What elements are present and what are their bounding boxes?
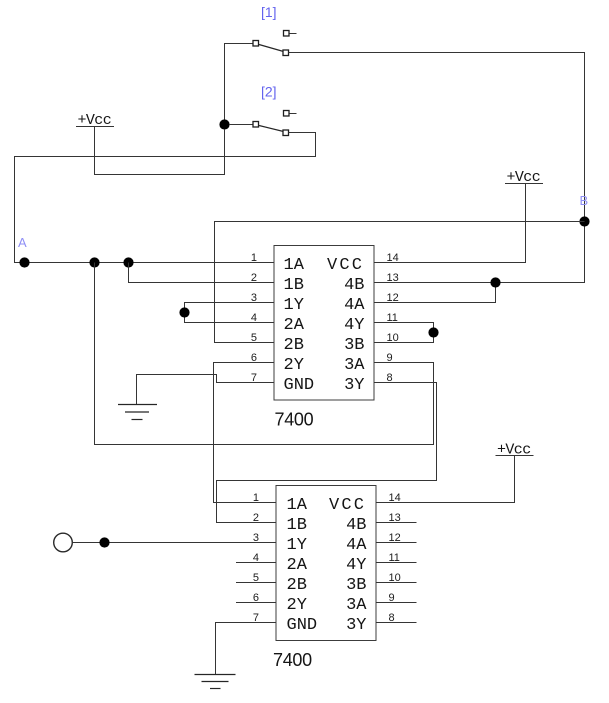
svg-text:2A: 2A [284, 316, 305, 335]
stub lower pin 12 [376, 542, 417, 544]
svg-text:1A: 1A [287, 496, 308, 515]
wire +Vcc V1 to switch junction [95, 127, 225, 175]
svg-text:3Y: 3Y [346, 616, 366, 635]
wire pin 12 up to pin 13 [374, 283, 496, 303]
svg-text:3: 3 [253, 532, 259, 544]
wire pin 2 branch [129, 263, 275, 283]
IC U2 pin numbers left [253, 492, 259, 624]
junction node A feedback tap [89, 257, 99, 267]
svg-text:4Y: 4Y [344, 316, 364, 335]
stub lower pin 9 [376, 602, 417, 604]
wire pin 11 to pin 10 [374, 323, 434, 343]
svg-text:2: 2 [253, 512, 259, 524]
wire pin 9 feedback to node A [95, 263, 434, 445]
svg-text:2Y: 2Y [287, 596, 307, 615]
stub lower pin 10 [376, 582, 417, 584]
svg-text:3B: 3B [346, 576, 366, 595]
switch S1 label [1] [261, 4, 277, 20]
wire pin 14 to +Vcc V2 [374, 184, 526, 263]
wire switch S1 input (from junction up and right to pole) [225, 44, 254, 125]
wire lower pin 14 to +Vcc V3 [376, 456, 515, 503]
svg-text:1: 1 [253, 492, 259, 504]
svg-text:2Y: 2Y [284, 356, 304, 375]
svg-text:9: 9 [387, 352, 393, 364]
wire switch S2 input [229, 124, 253, 126]
svg-text:4B: 4B [346, 516, 366, 535]
wire top rail (pin 5 to node B) [215, 222, 585, 343]
node B label [580, 193, 589, 208]
svg-text:1Y: 1Y [284, 296, 304, 315]
junction switch poles feed [219, 119, 229, 129]
switch S1 unused contact [284, 31, 297, 37]
wire lower pin 7 to ground [216, 623, 277, 675]
junction node B [579, 216, 589, 226]
stub lower pin 6 [236, 602, 276, 604]
IC U2 label 7400 [273, 650, 312, 670]
svg-text:B: B [580, 193, 589, 208]
junction pin13/pin12 [490, 277, 500, 287]
svg-text:GND: GND [284, 376, 315, 395]
svg-text:2A: 2A [287, 556, 308, 575]
svg-text:3: 3 [251, 292, 257, 304]
svg-text:2: 2 [251, 272, 257, 284]
switch S2 pole contact [253, 122, 259, 128]
svg-text:5: 5 [251, 332, 257, 344]
svg-text:3A: 3A [344, 356, 365, 375]
svg-text:1: 1 [251, 252, 257, 264]
stub lower pin 5 [236, 582, 276, 584]
svg-text:4A: 4A [344, 296, 365, 315]
svg-text:1B: 1B [287, 516, 307, 535]
ground GND2 [195, 675, 236, 689]
svg-text:4A: 4A [346, 536, 367, 555]
stub lower pin 8 [376, 622, 417, 624]
wire pin 3 to pin 4 [185, 303, 275, 323]
op IC U1 body [274, 246, 374, 401]
wire terminal to lower pin 3 [73, 542, 277, 544]
svg-text:3A: 3A [346, 596, 367, 615]
wire pin 6 to lower pin 1 [214, 363, 277, 503]
power +Vcc V1 [76, 112, 114, 129]
svg-text:13: 13 [387, 272, 399, 284]
junction pin 2 tap [123, 257, 133, 267]
IC U2 pin names right column [329, 496, 367, 635]
switch S1 throw contact [283, 50, 289, 56]
power +Vcc V3 [496, 442, 534, 459]
svg-text:4: 4 [253, 552, 259, 564]
svg-text:VCC: VCC [327, 256, 364, 275]
svg-text:[2]: [2] [261, 84, 277, 100]
IC U1 pin numbers right [387, 252, 399, 384]
stub lower pin 11 [376, 562, 417, 564]
IC U1 pin names right column [327, 256, 365, 395]
stub lower pin 13 [376, 522, 417, 524]
svg-text:2B: 2B [284, 336, 304, 355]
switch S1 pole contact [253, 41, 259, 47]
svg-text:1Y: 1Y [287, 536, 307, 555]
svg-text:A: A [18, 235, 27, 250]
svg-text:3Y: 3Y [344, 376, 364, 395]
wire node B: switch S1 output right, down right side, left into pin 13 [289, 53, 585, 283]
svg-text:1B: 1B [284, 276, 304, 295]
switch S1 blade [259, 45, 284, 52]
IC U1 pin numbers left [251, 252, 257, 384]
svg-text:[1]: [1] [261, 4, 277, 20]
junction node A [19, 257, 29, 267]
svg-text:7400: 7400 [273, 650, 312, 670]
node A label [18, 235, 27, 250]
svg-text:4: 4 [251, 312, 257, 324]
IC U2 pin names left column [287, 496, 318, 635]
junction lower pin 3 wire [99, 537, 109, 547]
stub lower pin 4 [236, 562, 276, 564]
power +Vcc V2 [505, 169, 543, 186]
switch S2 throw contact [283, 130, 289, 136]
op IC U2 body [276, 486, 376, 641]
junction pin11/pin10 [428, 327, 438, 337]
svg-text:7: 7 [253, 612, 259, 624]
input terminal (lower pin 3) [54, 533, 73, 552]
switch S2 unused contact [284, 111, 297, 117]
svg-text:7400: 7400 [275, 410, 314, 430]
wire switch S2 output to node A (right, down, long left, down to A row, into pin 1) [15, 133, 316, 263]
IC U1 pin names left column [284, 256, 315, 395]
svg-text:7: 7 [251, 372, 257, 384]
svg-text:4Y: 4Y [346, 556, 366, 575]
switch S2 blade [259, 126, 284, 132]
svg-text:VCC: VCC [329, 496, 366, 515]
svg-text:6: 6 [251, 352, 257, 364]
switch S2 label [2] [261, 84, 277, 100]
IC U1 label 7400 [275, 410, 314, 430]
svg-text:6: 6 [253, 592, 259, 604]
svg-text:4B: 4B [344, 276, 364, 295]
svg-text:3B: 3B [344, 336, 364, 355]
wire pin 7 to ground [137, 375, 275, 405]
junction pin3/pin4 [179, 307, 189, 317]
svg-text:1A: 1A [284, 256, 305, 275]
wire pin 8 to lower pin 2 [217, 383, 437, 523]
svg-text:GND: GND [287, 616, 318, 635]
svg-text:2B: 2B [287, 576, 307, 595]
IC U2 pin numbers right [389, 492, 401, 624]
svg-text:5: 5 [253, 572, 259, 584]
ground GND1 [118, 405, 157, 420]
